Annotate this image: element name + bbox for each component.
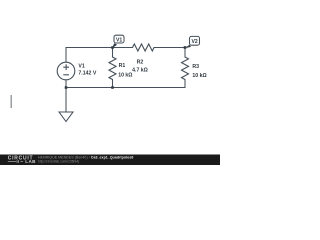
svg-text:LAB: LAB <box>25 159 36 164</box>
junction at V1 flag node <box>111 46 114 49</box>
logo capacitor mark <box>17 160 19 163</box>
resistor R2 <box>133 44 155 51</box>
svg-text:7.142 V: 7.142 V <box>78 71 96 77</box>
junction at V2 flag node <box>184 46 187 49</box>
svg-text:4.7 kΩ: 4.7 kΩ <box>132 68 148 74</box>
svg-text:10 kΩ: 10 kΩ <box>118 72 132 78</box>
wire R1 top lead <box>112 48 114 58</box>
svg-text:R3: R3 <box>192 64 199 70</box>
wire top rail right segment <box>154 47 185 49</box>
svg-text:V1: V1 <box>116 37 122 43</box>
wire V1 top lead <box>65 48 67 63</box>
resistor R1 <box>109 57 116 80</box>
footer bar <box>0 155 220 166</box>
node flag V1 box <box>114 35 124 43</box>
stray vertical mark left edge <box>10 95 12 108</box>
wire R3 bottom lead <box>184 80 186 88</box>
wire top rail left segment <box>66 47 133 49</box>
svg-text:R1: R1 <box>119 63 126 69</box>
resistor R3 <box>182 57 189 80</box>
ground <box>59 112 73 122</box>
svg-text:http://circuitlab.com/c/35rk4j: http://circuitlab.com/c/35rk4j <box>38 159 79 163</box>
node flag V2 wedge <box>185 45 192 49</box>
logo underline wire <box>8 161 23 163</box>
svg-text:10 kΩ: 10 kΩ <box>192 73 206 79</box>
wire R1 bottom lead <box>112 80 114 88</box>
svg-text:R2: R2 <box>137 60 144 66</box>
svg-text:V2: V2 <box>191 39 197 45</box>
junction bottom rail below R1 <box>111 86 114 89</box>
voltage source V1 <box>57 62 75 80</box>
node flag V1 wedge <box>112 43 117 48</box>
junction bottom rail below V1 <box>65 86 68 89</box>
svg-text:V1: V1 <box>78 63 84 69</box>
node flag V2 box <box>190 36 200 45</box>
wire bottom rail <box>66 87 185 89</box>
wire V1 bottom lead <box>65 80 67 88</box>
wire ground lead <box>65 88 67 113</box>
wire R3 top lead <box>184 48 186 58</box>
